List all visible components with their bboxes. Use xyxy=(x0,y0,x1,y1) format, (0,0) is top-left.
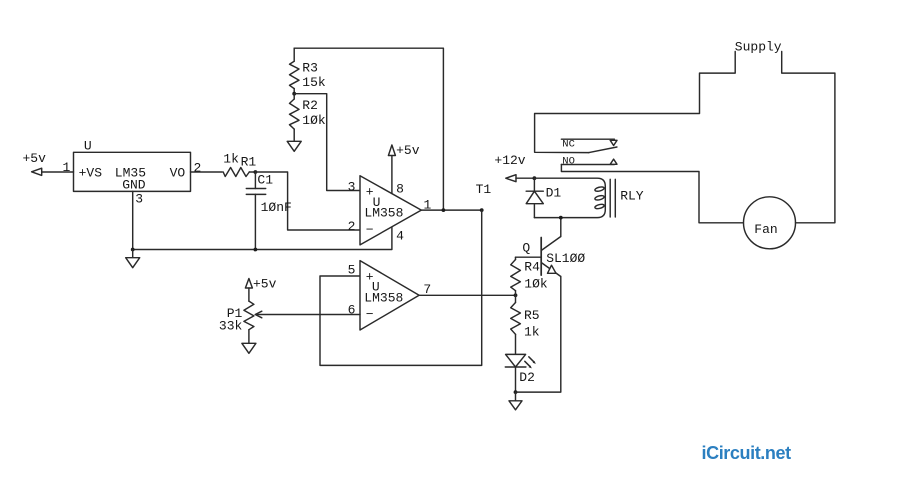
svg-text:2: 2 xyxy=(194,160,202,175)
svg-text:2: 2 xyxy=(348,219,356,234)
svg-text:VO: VO xyxy=(170,166,186,181)
power flag +12v xyxy=(494,153,525,182)
pin number 8 xyxy=(396,181,404,196)
svg-text:Supply: Supply xyxy=(735,39,782,54)
resistor R1 xyxy=(223,151,256,176)
wire op-amp pin 8 supply xyxy=(391,156,393,194)
svg-text:+5v: +5v xyxy=(396,143,420,158)
svg-text:NO: NO xyxy=(562,156,575,168)
wire +12v to D1/relay xyxy=(516,177,534,179)
svg-text:+12v: +12v xyxy=(494,153,525,168)
svg-text:1ØnF: 1ØnF xyxy=(261,200,292,215)
capacitor C1 xyxy=(246,172,292,250)
svg-text:iCircuit.net: iCircuit.net xyxy=(702,443,792,463)
power flag +5v at P1 xyxy=(245,277,276,292)
wire LM35 GND pin 3 down xyxy=(132,191,134,249)
wire R3/R2 junction to op-amp pin 3 xyxy=(294,94,360,191)
junction R3/R2 xyxy=(292,92,296,96)
svg-text:RLY: RLY xyxy=(620,189,644,204)
svg-text:D1: D1 xyxy=(546,185,562,200)
svg-text:R4: R4 xyxy=(524,259,540,274)
pin number 6 xyxy=(348,302,356,317)
svg-text:5: 5 xyxy=(348,262,356,277)
wire T1 to op-amp pin 5 xyxy=(320,210,482,365)
pin number 1 xyxy=(63,160,71,175)
pin number 3 xyxy=(135,192,143,207)
IC U LM35 xyxy=(74,138,191,192)
wire pin1 to LM35 xyxy=(42,171,74,173)
svg-text:1: 1 xyxy=(63,160,71,175)
junction R4/R5/pin7 xyxy=(514,293,518,297)
supply label xyxy=(735,39,782,54)
wire R4 to transistor base xyxy=(516,256,542,258)
relay lever xyxy=(589,147,617,153)
wire fan to supply right xyxy=(782,52,835,223)
wire R1 to node xyxy=(249,171,255,173)
svg-text:3: 3 xyxy=(135,192,143,207)
power flag +5v at LM35 pin 1 xyxy=(23,151,47,176)
wire op-amp pin 7 output to R4/R5 junction xyxy=(419,294,515,296)
op-amp U1 LM358 (upper) xyxy=(360,176,421,245)
svg-text:3: 3 xyxy=(348,179,356,194)
svg-text:R3: R3 xyxy=(302,61,318,76)
svg-text:33k: 33k xyxy=(219,318,243,333)
wire supply to relay common pole xyxy=(535,52,736,153)
svg-text:4: 4 xyxy=(396,228,404,243)
potentiometer P1 33k xyxy=(219,288,254,343)
relay NO contact xyxy=(561,156,617,168)
resistor R4 xyxy=(511,257,548,295)
op-amp U2 LM358 (lower) xyxy=(360,261,419,330)
svg-text:−: − xyxy=(366,222,374,237)
junction C1/rail xyxy=(254,248,258,252)
wire collector to relay xyxy=(560,218,562,237)
resistor R5 xyxy=(511,295,540,354)
svg-text:Fan: Fan xyxy=(754,222,777,237)
pin number 3 (op-amp) xyxy=(348,179,356,194)
wire feedback loop from output to R3 top xyxy=(294,48,443,210)
pin number 4 xyxy=(396,228,404,243)
fan motor xyxy=(744,197,796,249)
wire NO contact to fan xyxy=(561,165,743,223)
wire emitter down to ground node xyxy=(516,277,561,393)
svg-text:U: U xyxy=(84,138,92,153)
pin number 1 xyxy=(424,198,432,213)
svg-text:+VS: +VS xyxy=(79,166,103,181)
svg-text:LM358: LM358 xyxy=(364,206,403,221)
svg-text:LM358: LM358 xyxy=(364,291,403,306)
svg-text:15k: 15k xyxy=(302,75,326,90)
svg-text:NC: NC xyxy=(562,138,575,150)
svg-text:SL1ØØ: SL1ØØ xyxy=(546,251,585,266)
svg-text:T1: T1 xyxy=(476,182,492,197)
svg-text:R2: R2 xyxy=(302,98,318,113)
pin number 2 (op-amp) xyxy=(348,219,356,234)
wire potentiometer wiper to pin 6 xyxy=(255,311,360,318)
node junction R1/C1 xyxy=(254,170,258,174)
svg-text:1k: 1k xyxy=(524,324,540,339)
ground symbol under P1 xyxy=(242,343,256,353)
iCircuit.net watermark xyxy=(702,443,792,463)
svg-text:GND: GND xyxy=(122,177,146,192)
resistor R2 xyxy=(290,94,326,142)
pin number 5 xyxy=(348,262,356,277)
svg-text:D2: D2 xyxy=(519,370,535,385)
pin number 2 xyxy=(194,160,202,175)
transistor Q SL100 xyxy=(522,237,585,277)
junction coil/collector xyxy=(559,216,563,220)
svg-text:8: 8 xyxy=(396,181,404,196)
junction pin3/rail xyxy=(131,248,135,252)
svg-text:R5: R5 xyxy=(524,308,540,323)
ground symbol under D2 xyxy=(509,392,522,410)
pin number 7 xyxy=(423,282,431,297)
svg-text:+5v: +5v xyxy=(253,277,277,292)
svg-text:1Øk: 1Øk xyxy=(524,276,548,291)
svg-text:Q: Q xyxy=(522,240,530,255)
svg-text:−: − xyxy=(366,307,374,322)
svg-text:C1: C1 xyxy=(257,173,273,188)
svg-text:R1: R1 xyxy=(241,154,257,169)
resistor R3 xyxy=(290,48,326,93)
relay coil RLY xyxy=(534,178,643,217)
ground rail wire to op-amp pin 4 xyxy=(133,227,392,250)
power flag +5v at pin 8 xyxy=(388,143,419,158)
wire LM35 VO to R1 xyxy=(191,171,223,173)
ground symbol under LM35 xyxy=(126,250,140,268)
wire node to op-amp pin 2 xyxy=(255,172,360,230)
LED D2 xyxy=(505,354,536,392)
junction D2/emitter/ground xyxy=(514,390,518,394)
ground symbol under R2 xyxy=(287,141,301,151)
node T1 xyxy=(476,182,492,212)
wire op-amp output pin 1 xyxy=(421,209,481,211)
junction +12v/D1/coil xyxy=(533,176,537,180)
junction output/feedback xyxy=(442,208,446,212)
relay NC contact xyxy=(561,138,617,150)
svg-text:+5v: +5v xyxy=(23,151,47,166)
svg-text:1Øk: 1Øk xyxy=(302,113,326,128)
svg-text:1k: 1k xyxy=(223,151,239,166)
diode D1 xyxy=(526,178,561,217)
